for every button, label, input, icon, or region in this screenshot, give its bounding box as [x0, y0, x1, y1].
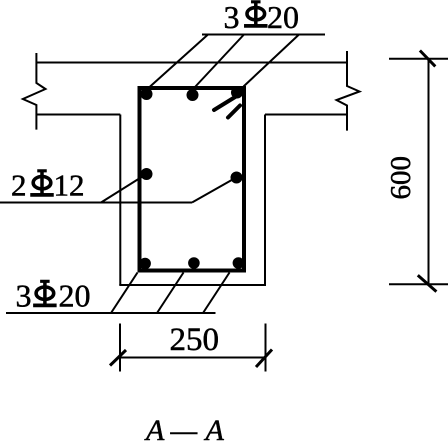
- beam bottom outline: [119, 284, 266, 286]
- label 3phi20 bottom phi: [33, 280, 56, 307]
- bottom leader diagonal 3: [203, 273, 230, 314]
- slab bottom line right: [265, 114, 347, 116]
- beam web left outline: [119, 115, 121, 286]
- top leader diagonal 3: [244, 35, 300, 87]
- label 3phi20 top phi: [244, 1, 267, 28]
- break line left: [23, 53, 46, 130]
- dim 250 line: [119, 357, 267, 359]
- svg-text:3: 3: [16, 278, 32, 314]
- rebar top-right: [231, 87, 243, 99]
- svg-text:A: A: [144, 414, 165, 443]
- slab top line: [36, 62, 347, 64]
- svg-text:A: A: [204, 414, 225, 443]
- middle leader diagonal 1: [101, 176, 144, 203]
- svg-text:20: 20: [267, 0, 299, 35]
- dim 600 extension top: [389, 58, 448, 60]
- svg-text:—: —: [170, 414, 198, 443]
- top leader diagonal 2: [195, 35, 245, 88]
- svg-text:20: 20: [59, 278, 91, 314]
- rebar bottom-middle: [188, 257, 200, 269]
- rebar top-middle: [187, 89, 199, 101]
- middle leader horizontal: [0, 202, 192, 204]
- svg-text:2: 2: [11, 168, 27, 203]
- label 2phi12 phi: [31, 170, 54, 197]
- dim 600 extension bottom: [389, 283, 448, 285]
- rebar mid-right: [231, 172, 243, 184]
- dim 600 line: [428, 58, 430, 285]
- break line right: [337, 51, 360, 131]
- svg-text:12: 12: [54, 168, 85, 203]
- slab bottom line left: [36, 114, 120, 116]
- rebar mid-left: [141, 168, 153, 180]
- svg-text:600: 600: [385, 156, 417, 200]
- dim 250 tick right: [256, 350, 272, 368]
- top label underline: [202, 34, 325, 36]
- bottom leader diagonal 1: [111, 273, 138, 314]
- rebar bottom-left: [139, 258, 151, 270]
- bottom label underline: [6, 312, 216, 314]
- svg-text:3: 3: [224, 0, 240, 35]
- dim 600 tick bottom: [418, 275, 437, 291]
- middle leader diagonal 2: [192, 179, 234, 203]
- bottom leader diagonal 2: [157, 273, 184, 314]
- beam web right outline: [264, 115, 266, 286]
- stirrup hook stroke 2: [228, 106, 240, 118]
- dim 600 tick top: [420, 51, 435, 67]
- top leader diagonal 1: [149, 35, 208, 88]
- stirrup: [140, 88, 245, 271]
- rebar top-left: [141, 88, 153, 100]
- dim 250 extension left: [119, 324, 121, 372]
- svg-text:250: 250: [170, 322, 220, 358]
- dim 250 extension right: [265, 324, 267, 372]
- dim 250 tick left: [110, 350, 126, 366]
- stirrup hook stroke 1: [214, 94, 240, 110]
- rebar bottom-right: [233, 257, 245, 269]
